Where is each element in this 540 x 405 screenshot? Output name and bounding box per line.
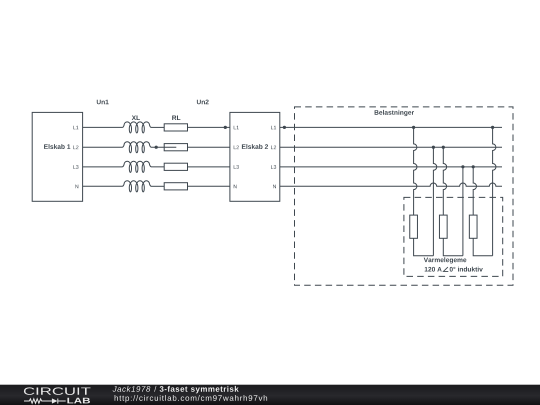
pin label L3 Elskab2 left bbox=[234, 165, 239, 169]
pin label L1 Elskab2 right bbox=[271, 126, 276, 130]
load resistor R3 (Varmelegeme) bbox=[469, 215, 477, 238]
node Un2 dot on L1 wire bbox=[224, 126, 227, 129]
pin label N Elskab2 left bbox=[234, 185, 237, 189]
node dot on L1 after Elskab 2 bbox=[283, 126, 286, 129]
wire N from coil to RL resistor bbox=[151, 185, 164, 187]
wire vertical from L1 to load R1 top bbox=[414, 127, 417, 215]
junction L2 to R1 return bbox=[432, 146, 435, 149]
box Elskab 2 bbox=[230, 112, 280, 201]
pin label L1 Elskab2 left bbox=[234, 126, 239, 130]
inductor XL phase L2 bbox=[123, 142, 152, 153]
footer title text bbox=[113, 386, 268, 403]
wire L1 from coil to RL resistor bbox=[151, 126, 164, 128]
dashed box Varmelegeme group bbox=[404, 197, 503, 276]
wire vertical from L1 down to R3 bottom connector bbox=[493, 127, 496, 255]
wire L1 from Elskab 2 into load box bbox=[280, 126, 502, 128]
wire L1 from RL to Elskab 2 bbox=[188, 126, 230, 128]
wire L3 from coil to RL resistor bbox=[151, 166, 164, 168]
pin label L1 Elskab1 right bbox=[73, 126, 78, 130]
inductor XL phase L1 bbox=[123, 122, 152, 133]
inductor XL phase N bbox=[123, 181, 152, 192]
resistor RL phase L1 bbox=[164, 124, 187, 131]
label XL bbox=[132, 116, 140, 121]
resistor RL phase N bbox=[164, 183, 187, 190]
wire L3 from Elskab 1 to XL coil bbox=[83, 166, 123, 168]
label 120 A angle 0 induktiv bbox=[425, 267, 442, 272]
junction L3 to R2 return bbox=[461, 165, 464, 168]
wire vertical from L3 down to R2 bottom connector bbox=[462, 167, 464, 256]
pin label N Elskab1 right bbox=[75, 185, 78, 189]
pin label L3 Elskab1 right bbox=[73, 165, 78, 169]
load resistor R1 (Varmelegeme) bbox=[410, 215, 418, 238]
node label Un1 bbox=[97, 100, 109, 105]
box Elskab 1 bbox=[32, 112, 82, 201]
wire L2 from RL to Elskab 2 bbox=[188, 146, 230, 148]
wire L2 from coil to RL resistor bbox=[151, 146, 176, 148]
node label Un2 bbox=[197, 100, 209, 105]
inductor XL phase L3 bbox=[123, 161, 152, 172]
wire vertical from L2 down to R1 bottom connector bbox=[433, 147, 436, 256]
wire vertical from L2 to load R2 top bbox=[443, 147, 446, 215]
wire N from Elskab 2 into load box, hops over three verticals bbox=[280, 183, 502, 186]
CircuitLab logo bbox=[24, 387, 91, 403]
dashed box Belastninger bbox=[295, 107, 514, 285]
pin label L2 Elskab2 right bbox=[271, 146, 276, 150]
label RL bbox=[172, 116, 180, 121]
label Elskab 1 bbox=[44, 144, 70, 149]
junction L1 to R1 bbox=[412, 126, 415, 129]
pin label N Elskab2 right bbox=[273, 185, 276, 189]
pin label L3 Elskab2 right bbox=[271, 165, 276, 169]
resistor RL phase L2 bbox=[164, 144, 187, 151]
wire L3 from Elskab 2 into load box bbox=[280, 166, 502, 168]
pin label L2 Elskab2 left bbox=[234, 146, 239, 150]
wire R2 bottom connector bbox=[443, 238, 463, 255]
load resistor R2 (Varmelegeme) bbox=[439, 215, 447, 238]
wire L3 from RL to Elskab 2 bbox=[188, 166, 230, 168]
node dot on L2 wire bbox=[155, 146, 158, 149]
label Belastninger bbox=[375, 110, 414, 116]
wire L2 from Elskab 2 into load box bbox=[280, 146, 502, 148]
resistor RL phase L3 bbox=[164, 163, 187, 170]
wire R1 bottom connector bbox=[414, 238, 434, 255]
wire R3 bottom connector bbox=[473, 238, 492, 255]
wire N from Elskab 1 to XL coil bbox=[83, 185, 123, 187]
wire L2 from Elskab 1 to XL coil bbox=[83, 146, 123, 148]
logo resistor zigzag and diode bbox=[24, 399, 66, 404]
wire L1 from Elskab 1 to XL coil bbox=[83, 126, 123, 128]
wire N from RL to Elskab 2 bbox=[188, 185, 230, 187]
junction L1 to R3 return bbox=[491, 126, 494, 129]
wire vertical from L3 to load R3 top bbox=[473, 167, 476, 215]
label Elskab 2 bbox=[242, 144, 268, 149]
junction L3 to R3 bbox=[472, 165, 475, 168]
label Varmelegeme bbox=[424, 257, 467, 263]
pin label L2 Elskab1 right bbox=[73, 146, 78, 150]
junction L2 to R2 bbox=[442, 146, 445, 149]
